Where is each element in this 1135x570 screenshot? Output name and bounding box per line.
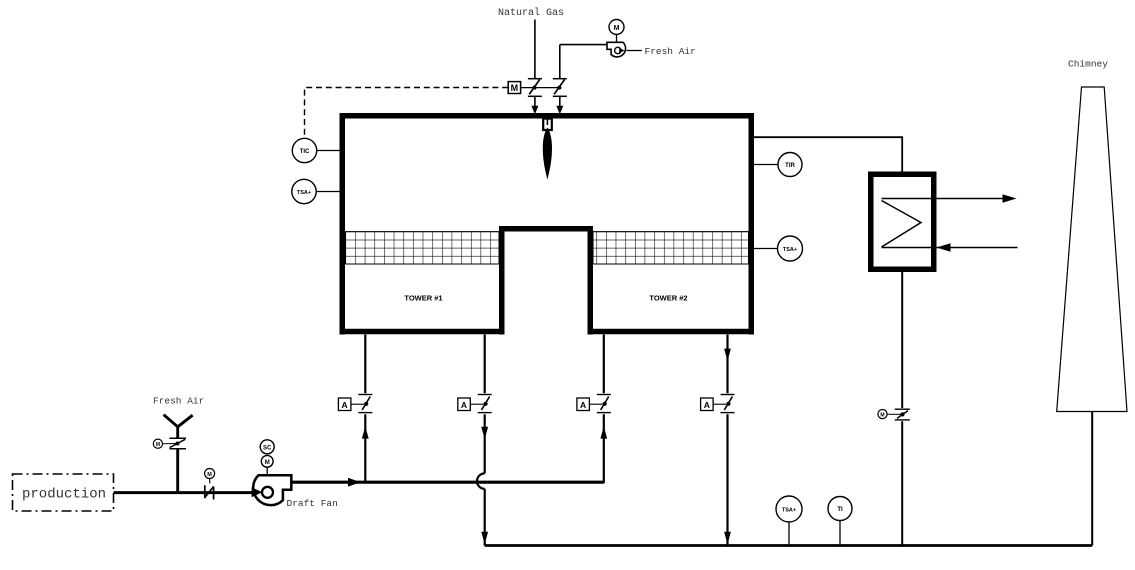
valve duct 3 damper <box>577 395 611 413</box>
svg-text:SC: SC <box>263 445 272 451</box>
heat exchanger coil <box>882 199 1018 248</box>
instrument TIR <box>754 153 802 177</box>
blower combustion air fan <box>607 20 642 57</box>
svg-text:M: M <box>880 412 884 418</box>
instrument TI bottom <box>828 497 852 546</box>
blower draft fan <box>252 440 292 505</box>
instrument TSA+ right <box>754 236 803 261</box>
wire dashed signal TIC to M <box>305 88 509 139</box>
production box <box>13 474 114 511</box>
svg-text:TIC: TIC <box>300 149 310 155</box>
wire vessel outlet to heat exchanger <box>754 137 902 171</box>
svg-text:Natural Gas: Natural Gas <box>498 7 564 19</box>
instrument TSA+ bottom <box>776 496 802 546</box>
svg-text:TSA+: TSA+ <box>782 508 796 514</box>
wire combustion air pipe <box>556 45 608 115</box>
valve duct 1 damper <box>338 395 372 413</box>
duct line 1 <box>362 335 369 483</box>
svg-text:M: M <box>614 25 620 32</box>
duct line 3 <box>600 335 607 484</box>
vessel shell walls <box>340 113 755 335</box>
wire natural gas pipe <box>531 20 538 115</box>
svg-text:Fresh Air: Fresh Air <box>153 396 204 407</box>
svg-text:M: M <box>207 472 212 478</box>
flame <box>543 128 552 180</box>
svg-text:Fresh Air: Fresh Air <box>645 46 696 57</box>
media bed tower 1 hatch <box>346 232 500 264</box>
label Fresh Air bottom <box>153 396 204 407</box>
svg-text:TOWER #1: TOWER #1 <box>404 293 442 302</box>
wire heat exchanger to lower header <box>901 272 903 546</box>
svg-text:TSA+: TSA+ <box>783 247 797 253</box>
label TOWER #2 <box>649 293 687 302</box>
svg-text:M: M <box>511 83 519 93</box>
wire fan outlet header <box>292 478 604 487</box>
label Chimney <box>1068 59 1108 70</box>
media bed tower 2 hatch <box>593 232 749 264</box>
valve fresh air damper <box>153 438 186 449</box>
valve duct 2 damper <box>458 395 492 413</box>
svg-text:production: production <box>22 487 106 503</box>
valve inlet butterfly <box>205 469 215 500</box>
instrument TSA+ left <box>292 179 340 203</box>
svg-text:A: A <box>704 400 710 410</box>
label Draft Fan <box>287 498 338 509</box>
svg-text:TI: TI <box>837 507 843 513</box>
svg-text:M: M <box>265 460 270 466</box>
chimney <box>1057 87 1127 412</box>
actuator box M for dampers <box>508 82 559 94</box>
label TOWER #1 <box>404 293 442 302</box>
instrument TIC <box>292 138 339 162</box>
svg-text:A: A <box>580 400 586 410</box>
duct line 2 <box>477 335 488 546</box>
svg-text:Draft Fan: Draft Fan <box>287 498 338 509</box>
wire chimney stack pipe <box>1091 412 1093 546</box>
duct line 4 <box>724 335 731 546</box>
valve duct 4 damper <box>701 395 735 413</box>
arrow hot air out <box>1003 194 1017 202</box>
svg-text:TOWER #2: TOWER #2 <box>649 293 687 302</box>
label Fresh Air top <box>645 46 696 57</box>
valve gas damper <box>528 79 542 97</box>
valve bypass damper <box>878 409 910 420</box>
wire main inlet pipe <box>114 491 255 494</box>
wire lower exhaust header <box>485 544 1092 547</box>
valve combustion air damper <box>553 79 567 97</box>
heat exchanger shell <box>871 174 934 269</box>
svg-text:TSA+: TSA+ <box>297 190 311 196</box>
label Natural Gas <box>498 7 564 19</box>
svg-text:Chimney: Chimney <box>1068 59 1108 70</box>
vent fresh air intake Y <box>164 415 193 493</box>
arrow cold air in <box>937 243 951 251</box>
svg-text:A: A <box>461 400 467 410</box>
svg-text:A: A <box>342 400 348 410</box>
svg-text:M: M <box>156 442 160 448</box>
burner <box>543 119 552 130</box>
svg-text:TIR: TIR <box>785 163 795 169</box>
